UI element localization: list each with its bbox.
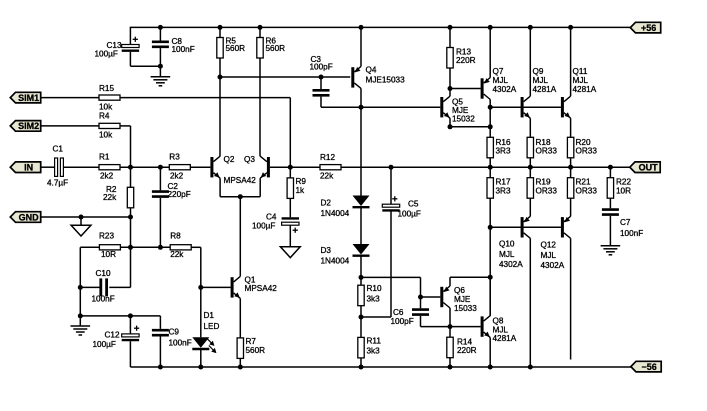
svg-text:LED: LED: [204, 322, 220, 331]
svg-text:100nF: 100nF: [169, 339, 192, 348]
junction Q6 emitter / Q8 collector: [488, 275, 493, 280]
wire C3 bottom: [321, 97, 361, 108]
junction R14 top / Q8 base line: [448, 324, 453, 329]
resistor R2 22k: [103, 185, 134, 208]
transistor Q1 MPSA42 (NPN): [231, 276, 278, 299]
wire R15 to Q3 base node: [120, 98, 290, 168]
wire Q4 emitter to +56: [360, 27, 362, 66]
svg-text:10R: 10R: [101, 250, 116, 259]
resistor R15 10k: [99, 84, 120, 112]
wire R2 top: [130, 167, 132, 187]
wire node A2 to C6/Q6 base: [361, 277, 421, 297]
svg-text:GND: GND: [19, 212, 40, 222]
wire R23 left: [80, 247, 99, 316]
svg-text:SIM2: SIM2: [18, 121, 39, 131]
wire Q10 collector to -56: [529, 238, 531, 367]
wire C9 bottom: [159, 337, 161, 368]
connector SIM2: [10, 121, 40, 132]
resistor R19 OR33: [527, 178, 557, 199]
junction C2 top: [158, 165, 163, 170]
transistor Q2 MPSA42 (NPN): [210, 155, 256, 185]
junction R16/R17 output: [488, 165, 493, 170]
junction R5 top rail: [218, 25, 223, 30]
svg-text:C4: C4: [266, 213, 277, 222]
wire R14 top: [449, 327, 451, 338]
wire R19 top: [529, 167, 531, 178]
wire R23 to R8: [120, 246, 170, 248]
junction C12 top: [128, 313, 133, 318]
svg-text:R15: R15: [99, 84, 114, 93]
wire R2 bottom / gnd column: [109, 208, 130, 288]
junction Q1 base node: [198, 285, 203, 290]
wire C2 bottom: [159, 198, 161, 247]
junction Q3 base / feedback node: [288, 165, 293, 170]
wire C12 bottom: [129, 341, 131, 367]
wire D3 to R10: [360, 256, 362, 285]
connector GND: [10, 212, 40, 223]
svg-text:MJE15033: MJE15033: [366, 76, 406, 85]
junction R7 bottom rail: [238, 365, 243, 370]
svg-text:560R: 560R: [266, 44, 286, 53]
ground (earth) under C8: [151, 77, 171, 86]
diode D2 1N4004: [321, 196, 370, 219]
ground (earth) at C7: [601, 246, 621, 255]
wire Q5 base line: [321, 106, 440, 108]
junction C13/C8 bottom: [158, 64, 163, 69]
svg-text:1k: 1k: [296, 186, 306, 195]
wire R18 bottom: [529, 158, 531, 167]
wire Q11 emitter to R20: [570, 118, 572, 137]
svg-text:OR33: OR33: [536, 147, 558, 156]
wire Q10/Q12 base line: [490, 226, 561, 228]
LED D1 LED: [192, 311, 219, 353]
wire Q11 collector: [570, 27, 572, 96]
wire Q6 emitter: [450, 277, 490, 286]
wire R9 to C4: [289, 198, 291, 217]
svg-text:OR33: OR33: [576, 187, 598, 196]
svg-text:C12: C12: [105, 331, 120, 340]
junction C8 top rail: [158, 25, 163, 30]
junction Q4 emitter rail: [359, 25, 364, 30]
junction Q5 collector / Q7 base: [448, 86, 453, 91]
junction Q7 emitter rail: [488, 25, 493, 30]
svg-text:100nF: 100nF: [172, 45, 195, 54]
svg-text:C7: C7: [620, 218, 631, 227]
resistor R16 3R3: [487, 137, 511, 158]
diode D3 1N4004: [321, 244, 370, 266]
capacitor C3 100pF: [310, 55, 333, 95]
wire Q8 emitter: [489, 338, 491, 367]
junction gnd triangle: [79, 215, 84, 220]
svg-text:MJL: MJL: [573, 76, 589, 85]
capacitor C4 100uF (electrolytic): [252, 213, 299, 233]
junction Q11 collector rail: [568, 25, 573, 30]
ground (triangle) at GND tag: [71, 225, 91, 236]
resistor R13 220R: [447, 48, 476, 69]
wire Q9 collector: [529, 27, 531, 96]
junction input node R1/R4/R2: [128, 165, 133, 170]
resistor R12 22k: [320, 153, 341, 181]
wire R13 top: [449, 27, 451, 47]
svg-text:22k: 22k: [320, 172, 334, 181]
svg-text:R21: R21: [576, 178, 591, 187]
junction R23/R2 column: [128, 245, 133, 250]
wire R22 top: [609, 167, 611, 178]
svg-text:SIM1: SIM1: [18, 93, 39, 103]
svg-text:−56: −56: [641, 362, 656, 372]
wire R22 to C7: [609, 198, 611, 208]
svg-text:Q8: Q8: [493, 317, 504, 326]
ground (triangle) at C4: [280, 247, 300, 258]
wire R14 bottom: [449, 358, 451, 367]
svg-text:100µF: 100µF: [93, 340, 116, 349]
wire R1 to R3: [120, 166, 169, 168]
svg-text:560R: 560R: [226, 44, 246, 53]
resistor R9 1k: [287, 177, 306, 198]
capacitor C9 100nF: [152, 328, 192, 348]
svg-text:R12: R12: [320, 153, 335, 162]
wire R17 bottom / lower column: [489, 198, 491, 316]
transistor Q4 MJE15033 (PNP): [351, 66, 405, 89]
junction node A2 (D3/R10/Q6 base line): [359, 275, 364, 280]
resistor R6 560R: [257, 36, 285, 58]
svg-text:R17: R17: [496, 178, 511, 187]
junction Q5 emitter / R16: [488, 124, 493, 129]
svg-text:Q2: Q2: [224, 155, 235, 164]
wire R4 to input node: [120, 126, 131, 167]
wire Q6 collector: [449, 308, 451, 327]
wire D2 to D3: [360, 208, 362, 244]
power tag -56: [631, 361, 661, 372]
junction Q5 emitter corner: [448, 124, 453, 129]
svg-text:220R: 220R: [456, 56, 476, 65]
wire R8 to Q1 base: [191, 247, 201, 287]
svg-text:C6: C6: [393, 308, 404, 317]
transistor Q6 MJE15033 (PNP): [440, 286, 477, 313]
resistor R1 2k2: [99, 153, 120, 181]
wire R21 top: [570, 167, 572, 178]
svg-text:C9: C9: [169, 328, 180, 337]
resistor R21 OR33: [567, 178, 597, 199]
wire GND row: [42, 216, 131, 218]
transistor Q5 MJE15032 (NPN): [440, 96, 475, 124]
svg-text:560R: 560R: [246, 346, 266, 355]
wire R9 top: [289, 167, 291, 178]
wire lower ground row: [80, 316, 160, 326]
resistor R3 2k2: [169, 153, 190, 181]
wire diff emitters: [220, 178, 260, 197]
resistor R5 560R: [217, 36, 245, 58]
wire Q1 base: [201, 286, 231, 288]
wire C2 top: [159, 167, 161, 190]
svg-text:220pF: 220pF: [168, 190, 191, 199]
junction R5/Q4-base line: [218, 75, 223, 80]
svg-text:Q7: Q7: [493, 67, 504, 76]
svg-text:3R3: 3R3: [496, 187, 511, 196]
transistor Q7 MJL4302A (PNP): [481, 67, 517, 99]
junction Q6 base / C6 top: [418, 295, 423, 300]
svg-text:100µF: 100µF: [398, 210, 421, 219]
wire C5 bottom to R10/R11 node: [361, 212, 391, 318]
power tag +56: [630, 22, 660, 33]
svg-text:3k3: 3k3: [367, 295, 381, 304]
svg-text:4.7µF: 4.7µF: [47, 179, 68, 188]
wire to gnd triangle: [80, 217, 82, 225]
svg-text:D2: D2: [321, 199, 332, 208]
svg-text:15033: 15033: [454, 304, 477, 313]
svg-text:Q4: Q4: [366, 66, 377, 75]
ground (earth) lower left: [71, 326, 91, 335]
wire C8 top: [159, 27, 161, 40]
junction R22 output: [608, 165, 613, 170]
resistor R20 OR33: [567, 137, 597, 158]
capacitor C1 4.7uF: [47, 145, 68, 188]
junction Q9 collector rail: [528, 25, 533, 30]
junction C9 bottom rail: [158, 365, 163, 370]
svg-text:C1: C1: [53, 145, 64, 154]
wire Q4 collector down: [360, 88, 362, 107]
wire feedback R12 left: [290, 166, 320, 168]
svg-text:100µF: 100µF: [95, 50, 118, 59]
wire C10 left: [80, 286, 101, 288]
junction lower base line: [488, 225, 493, 230]
svg-text:100nF: 100nF: [620, 229, 643, 238]
wire R10 bottom: [360, 306, 362, 338]
resistor R4 10k: [99, 112, 120, 140]
wire Q7 collector down: [489, 100, 491, 138]
junction R20/R21 output: [568, 165, 573, 170]
wire Q8 collector: [489, 277, 491, 315]
capacitor C5 100uF (electrolytic): [382, 196, 421, 218]
capacitor C7 100nF: [602, 210, 643, 239]
svg-text:2k2: 2k2: [100, 172, 114, 181]
svg-text:IN: IN: [24, 163, 33, 173]
wire Q3 base: [270, 166, 290, 168]
svg-text:MJL: MJL: [499, 250, 515, 259]
svg-text:10k: 10k: [99, 103, 113, 112]
wire R5 bottom to Q2 collector: [219, 58, 221, 156]
svg-text:R4: R4: [99, 112, 110, 121]
svg-text:R23: R23: [99, 232, 114, 241]
wire Q1 collector: [239, 197, 241, 277]
wire Q7 emitter to +56: [489, 27, 491, 77]
capacitor C13 100uF (electrolytic): [95, 37, 140, 59]
resistor R8 22k: [170, 232, 191, 259]
wire C12 top: [129, 316, 131, 334]
junction R6 top rail: [258, 25, 263, 30]
wire C8 bottom: [159, 48, 161, 77]
capacitor C10 100nF: [92, 269, 115, 304]
transistor Q11 MJL4281A (NPN): [561, 67, 597, 118]
svg-text:10R: 10R: [616, 187, 631, 196]
wire node A (Q2 collector to Q4 base): [220, 76, 350, 78]
svg-text:220R: 220R: [457, 346, 477, 355]
node B junction Q4 collector: [359, 105, 364, 110]
svg-text:C5: C5: [408, 199, 419, 208]
wire C4 to ground: [289, 225, 291, 246]
svg-text:4281A: 4281A: [573, 85, 597, 94]
capacitor C6 100pF: [391, 308, 430, 326]
transistor Q9 MJL4281A (NPN): [521, 67, 557, 118]
svg-text:R11: R11: [367, 337, 382, 346]
svg-text:4281A: 4281A: [533, 85, 557, 94]
svg-text:4281A: 4281A: [493, 334, 517, 343]
svg-text:100nF: 100nF: [92, 295, 115, 304]
svg-text:MPSA42: MPSA42: [245, 284, 278, 293]
junction C2 bottom: [158, 245, 163, 250]
wire C7 to ground: [609, 216, 611, 246]
wire R6 bottom to Q3 collector: [259, 58, 261, 156]
svg-text:D1: D1: [204, 311, 215, 320]
junction upper base line: [488, 105, 493, 110]
svg-text:R8: R8: [170, 232, 181, 241]
wire R3 to Q2 base: [190, 166, 210, 168]
resistor R18 OR33: [527, 137, 557, 158]
svg-text:MJL: MJL: [533, 76, 549, 85]
wire C6 bottom: [421, 316, 481, 327]
wire R17 top: [489, 167, 491, 178]
wire R21 to Q12 emitter: [570, 198, 572, 216]
svg-text:Q9: Q9: [533, 67, 544, 76]
wire output rail: [341, 166, 630, 168]
svg-text:4302A: 4302A: [541, 261, 565, 270]
junction C3 top: [319, 75, 324, 80]
junction C10 left: [78, 285, 83, 290]
wire Q1 emitter to R7: [239, 298, 241, 338]
wire Q5 emitter: [450, 118, 490, 127]
junction R2 bottom gnd: [128, 215, 133, 220]
svg-text:Q6: Q6: [454, 286, 465, 295]
wire C13 bottom: [130, 52, 160, 66]
wire R13 bottom / Q5 collector: [449, 68, 451, 96]
svg-text:4302A: 4302A: [493, 85, 517, 94]
wire R6 top: [259, 27, 261, 37]
connector SIM1: [10, 92, 40, 103]
wire R19 to Q10 emitter: [529, 198, 531, 216]
transistor Q10 MJL4302A (PNP): [499, 216, 530, 269]
wire D1 cathode: [200, 349, 202, 367]
wire R20 bottom: [570, 158, 572, 167]
svg-text:OR33: OR33: [576, 147, 598, 156]
capacitor C2 220pF: [152, 182, 191, 199]
wire +56 rail: [130, 26, 630, 28]
svg-text:R22: R22: [616, 178, 631, 187]
svg-text:22k: 22k: [170, 250, 184, 259]
wire R7 bottom: [239, 358, 241, 367]
connector OUT: [630, 162, 660, 173]
svg-text:1N4004: 1N4004: [321, 209, 350, 218]
junction D1 bottom rail: [198, 365, 203, 370]
wire C6 top: [420, 297, 422, 308]
wire C5 top: [390, 167, 392, 204]
junction tail node: [238, 194, 243, 199]
wire R5 top: [219, 27, 221, 37]
svg-text:MJE: MJE: [454, 295, 471, 304]
transistor Q3 MPSA42 (NPN): [260, 156, 270, 178]
resistor R7 560R: [237, 337, 265, 359]
svg-text:2k2: 2k2: [170, 172, 184, 181]
svg-text:R1: R1: [99, 153, 110, 162]
svg-text:100pF: 100pF: [310, 63, 333, 72]
svg-text:R3: R3: [169, 153, 180, 162]
transistor Q8 MJL4281A (NPN): [481, 316, 517, 344]
junction C5 top (output rail): [389, 165, 394, 170]
svg-text:+56: +56: [641, 23, 656, 33]
svg-text:3k3: 3k3: [367, 346, 381, 355]
wire R16 bottom: [489, 158, 491, 167]
transistor Q12 MJL4302A (PNP): [541, 216, 571, 270]
svg-text:R9: R9: [296, 177, 307, 186]
svg-text:Q3: Q3: [244, 155, 255, 164]
resistor R11 3k3: [358, 337, 382, 358]
svg-text:1N4004: 1N4004: [321, 257, 350, 266]
wire C9 top: [159, 316, 161, 329]
wire Q12 collector to -56: [570, 238, 572, 359]
wire C13 top: [129, 27, 131, 45]
capacitor C8 100nF: [152, 37, 195, 54]
svg-text:C10: C10: [96, 269, 111, 278]
junction R13 top rail: [448, 25, 453, 30]
junction R10/R11/C5: [359, 315, 364, 320]
svg-text:R19: R19: [536, 178, 551, 187]
svg-text:Q12: Q12: [541, 241, 557, 250]
resistor R22 10R: [607, 178, 631, 199]
svg-text:Q11: Q11: [573, 67, 588, 76]
svg-text:22k: 22k: [103, 193, 117, 202]
svg-text:D3: D3: [321, 246, 332, 255]
svg-text:OR33: OR33: [536, 187, 558, 196]
wire Q9/Q11 base line: [490, 106, 561, 108]
svg-text:MJL: MJL: [493, 76, 509, 85]
svg-text:4302A: 4302A: [499, 260, 523, 269]
wire SIM1 to R15: [42, 97, 100, 99]
connector IN: [10, 162, 40, 173]
svg-text:MJL: MJL: [493, 326, 509, 335]
resistor R23 10R: [99, 232, 120, 259]
wire IN to C1: [42, 166, 55, 168]
capacitor C12 100uF (electrolytic): [93, 326, 140, 349]
junction Q8 emitter rail: [488, 365, 493, 370]
resistor R14 220R: [447, 337, 477, 358]
svg-text:15032: 15032: [452, 115, 475, 124]
svg-text:MJL: MJL: [541, 251, 557, 260]
wire Q9 emitter to R18: [529, 118, 531, 137]
wire Q7 base: [450, 88, 481, 90]
junction R11 bottom rail: [359, 365, 364, 370]
wire Q6 base: [421, 296, 441, 298]
wire -56 rail: [130, 366, 631, 368]
svg-text:10k: 10k: [99, 131, 113, 140]
resistor R10 3k3: [358, 284, 382, 306]
junction earth left: [78, 313, 83, 318]
svg-text:OUT: OUT: [639, 163, 659, 173]
wire C3 top: [320, 77, 322, 89]
junction R18/R19 output: [528, 165, 533, 170]
junction R14 bottom rail: [448, 365, 453, 370]
wire Q4 collector to D2: [360, 107, 362, 195]
wire C1 to R1: [63, 166, 99, 168]
svg-text:R7: R7: [246, 337, 257, 346]
svg-text:100pF: 100pF: [391, 317, 414, 326]
wire D1 anode: [200, 287, 202, 337]
resistor R17 3R3: [487, 178, 511, 199]
wire SIM2 to R4: [42, 125, 100, 127]
svg-text:R10: R10: [367, 284, 382, 293]
wire R11 bottom: [360, 358, 362, 367]
svg-text:MPSA42: MPSA42: [224, 176, 257, 185]
junction Q10 collector rail: [528, 365, 533, 370]
svg-text:3R3: 3R3: [496, 147, 511, 156]
